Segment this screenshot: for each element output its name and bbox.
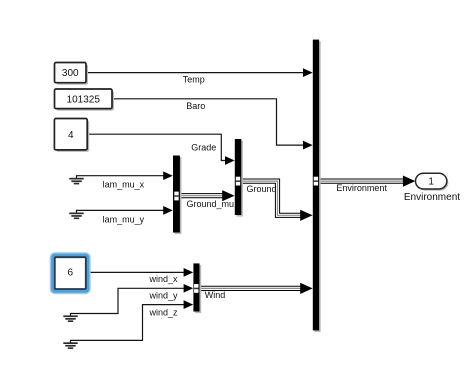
svg-text:wind_x: wind_x [149, 274, 179, 284]
svg-text:Wind: Wind [205, 290, 226, 300]
constant block 6 (selected) [50, 253, 90, 294]
bus creator main (Environment) [313, 40, 321, 332]
label Wind [205, 290, 226, 300]
label wind_x [149, 274, 179, 284]
port marker M3 output [194, 284, 198, 293]
label Ground [247, 184, 277, 194]
label Baro [186, 101, 205, 111]
ground block G4 (wind_z) [63, 342, 77, 349]
svg-text:lam_mu_y: lam_mu_y [103, 214, 145, 224]
label wind_z [149, 308, 179, 318]
bus Ground_mu [180, 190, 235, 201]
svg-text:lam_mu_x: lam_mu_x [103, 179, 145, 189]
wire Baro [112, 99, 313, 150]
mux M1 (Ground_mu bus creator) [173, 156, 182, 235]
label lam_mu_y [103, 214, 145, 224]
svg-text:wind_z: wind_z [149, 308, 179, 318]
port marker M2 output [236, 177, 240, 186]
wire wind_x [86, 268, 194, 277]
mux M3 (Wind bus creator) [193, 263, 201, 313]
bus Wind [199, 283, 312, 294]
svg-text:Baro: Baro [186, 101, 205, 111]
constant block 4 [54, 119, 89, 152]
wire Grade [87, 134, 234, 165]
wire wind_y [71, 284, 194, 316]
label Ground_mu [187, 199, 235, 209]
svg-text:Environment: Environment [404, 192, 460, 203]
label Environment (block name) [404, 192, 460, 203]
port marker M1 output [174, 192, 178, 201]
port marker main output [314, 177, 318, 186]
constant block 300 [55, 63, 89, 85]
svg-text:6: 6 [68, 267, 74, 278]
svg-text:300: 300 [62, 68, 79, 79]
label Temp [183, 75, 205, 85]
bus Ground [241, 181, 312, 221]
svg-text:Temp: Temp [183, 75, 205, 85]
svg-text:4: 4 [68, 130, 74, 141]
label Environment (signal) [336, 183, 387, 193]
label Grade [191, 142, 216, 152]
wire wind_z [71, 300, 194, 343]
svg-text:wind_y: wind_y [149, 291, 179, 301]
ground block G3 (wind_y) [63, 315, 77, 322]
bus Environment [319, 176, 415, 187]
svg-text:Ground_mu: Ground_mu [187, 199, 235, 209]
ground block G2 (lam_mu_y) [69, 213, 83, 220]
svg-text:1: 1 [428, 177, 434, 188]
wire Temp [86, 68, 313, 77]
svg-text:Environment: Environment [336, 183, 387, 193]
wire lam_mu_x [77, 171, 173, 180]
svg-text:Ground: Ground [247, 184, 277, 194]
svg-text:Grade: Grade [191, 142, 216, 152]
constant block 101325 [55, 89, 115, 111]
wire lam_mu_y [77, 206, 173, 215]
mux M2 (Ground bus creator) [235, 139, 243, 217]
label wind_y [149, 291, 179, 301]
outport 1 Environment [416, 173, 449, 190]
label lam_mu_x [103, 179, 145, 189]
svg-text:101325: 101325 [67, 94, 101, 105]
ground block G1 (lam_mu_x) [69, 178, 83, 185]
